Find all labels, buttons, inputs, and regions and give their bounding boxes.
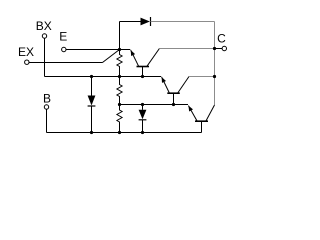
wire EX diagonal to node E [103,50,120,63]
wire base rail B (L4) [47,132,202,134]
node R1-R2 junction [118,75,121,78]
terminal B [44,105,48,109]
wire collector rail C [214,22,216,106]
wire E horizontal to Q1 emitter [66,49,130,51]
node Q1 base junction [141,75,144,78]
wire Q1 collector to C rail [159,48,214,50]
node D3 cathode junction [141,131,144,134]
node D2 anode junction [90,75,93,78]
node C terminal junction [213,47,216,50]
transistor Q1 [131,49,160,77]
transistor Q2 [162,77,189,105]
node D2 cathode junction [90,131,93,134]
transistor Q3 [188,105,214,133]
wire top rail left segment [120,21,141,23]
resistor R3 (Q3 base-emitter) [117,105,122,133]
wire top rail right segment [151,21,215,23]
diode D2 [88,77,96,133]
svg-text:C: C [217,32,226,46]
wire EX horizontal [29,62,103,64]
wire Q2 collector to C rail [189,76,215,78]
wire C stub [215,48,223,50]
wire node E vertical riser [119,22,121,50]
diode D1 free-wheeling [141,17,151,26]
node R2-R3 junction [118,103,121,106]
svg-text:B: B [43,92,51,106]
svg-text:EX: EX [18,45,34,59]
node D3 anode junction [141,103,144,106]
resistor R2 (Q2 base-emitter) [117,77,122,105]
resistor R1 (Q1 base-emitter) [117,50,122,77]
terminal EX [25,60,29,64]
wire B vertical [46,109,48,132]
svg-text:BX: BX [36,19,52,33]
terminal E [62,47,66,51]
node E junction [118,48,121,51]
node Q2 collector junction [213,75,216,78]
wire base rail Q1 (L2) [45,76,162,78]
wire BX vertical to base rail [44,38,46,76]
diode D3 [139,105,147,133]
node R3 bottom junction [118,131,121,134]
svg-text:E: E [59,30,67,44]
node Q2 base junction [172,103,175,106]
terminal BX [42,34,46,38]
terminal C [222,46,226,50]
wire base rail Q2 (L3) [120,104,189,106]
